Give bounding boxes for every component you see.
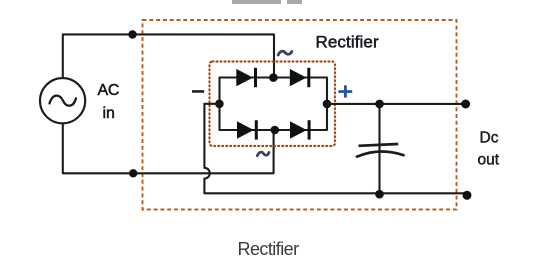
cropped text remnant top bbox=[232, 0, 302, 4]
wire minus rail: left node to bottom rail with hop over AC wire bbox=[204, 104, 467, 194]
svg-text:out: out bbox=[478, 151, 500, 168]
label minus (left of bridge) bbox=[192, 90, 204, 93]
AC source sine symbol bbox=[50, 96, 77, 106]
diode D3 bottom-left bbox=[237, 120, 258, 139]
capacitor C1 lead bbox=[378, 104, 380, 194]
AC source V1 circle bbox=[40, 78, 85, 123]
label ~ bottom (blue) bbox=[257, 152, 269, 156]
wire AC bottom: source bottom to bridge bottom node bbox=[63, 123, 274, 173]
svg-text:AC: AC bbox=[98, 82, 120, 99]
bridge dotted box bbox=[210, 62, 336, 147]
rectifier block dashed box bbox=[143, 20, 457, 210]
wire plus rail: right node to top output terminal bbox=[327, 103, 466, 105]
junction dot bottom input bbox=[129, 169, 137, 177]
svg-text:in: in bbox=[103, 105, 115, 122]
junction dot top input bbox=[128, 30, 136, 38]
node dot bridge left bbox=[215, 100, 224, 109]
junction dot cap top bbox=[375, 100, 384, 109]
bridge frame wires bbox=[220, 78, 328, 131]
label ~ top (blue) bbox=[278, 51, 292, 55]
diode D4 bottom-right bbox=[290, 120, 311, 139]
output terminal dot top bbox=[461, 100, 470, 109]
node dot bridge bottom bbox=[271, 126, 280, 135]
capacitor C1 plates bbox=[357, 144, 404, 157]
diode D1 top-left bbox=[236, 68, 257, 87]
node dot bridge right bbox=[323, 100, 332, 109]
svg-text:Rectifier: Rectifier bbox=[316, 33, 379, 52]
svg-text:Rectifier: Rectifier bbox=[238, 239, 300, 259]
wire AC top: source top to bridge top node bbox=[63, 34, 274, 78]
node dot bridge top bbox=[269, 73, 278, 82]
label plus (right of bridge, blue) bbox=[338, 85, 352, 97]
svg-text:Dc: Dc bbox=[480, 130, 499, 147]
diode D2 top-right bbox=[290, 68, 311, 87]
junction dot cap bottom bbox=[375, 190, 384, 199]
output terminal dot bottom bbox=[463, 191, 472, 200]
